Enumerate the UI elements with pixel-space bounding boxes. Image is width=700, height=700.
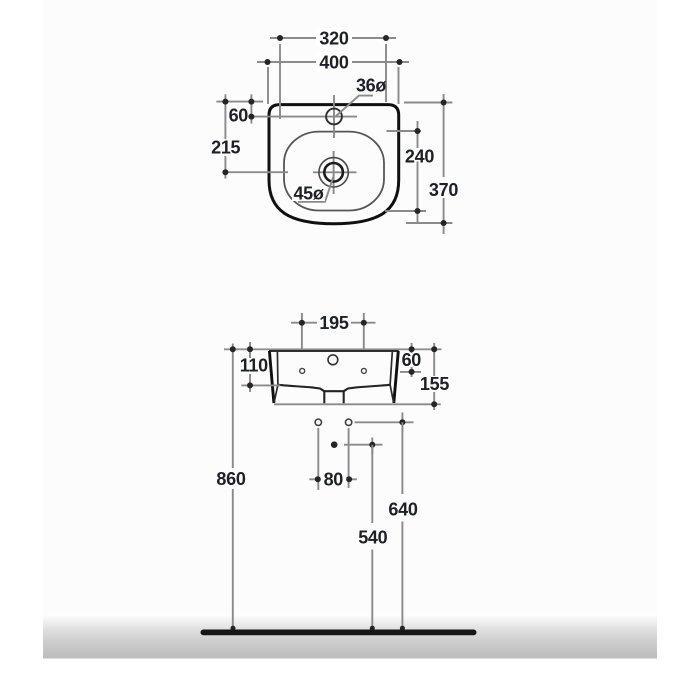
mounting hole left <box>315 419 321 425</box>
dim 215 dot bottom <box>222 169 228 175</box>
drain boss <box>324 391 343 403</box>
waste outlet dot <box>331 441 338 448</box>
interior bottom left <box>278 385 324 391</box>
basin inner bowl <box>284 132 384 211</box>
drain leader from 215 <box>225 171 288 173</box>
svg-text:860: 860 <box>216 469 245 489</box>
45ø label <box>292 186 325 201</box>
dim 370 bottom leader <box>406 222 452 224</box>
dim 320 dot right <box>383 35 389 41</box>
right wall outer <box>394 351 399 403</box>
dim 155 dot top <box>431 346 437 352</box>
floor dot 860 <box>231 626 236 631</box>
dim 60 vertical <box>250 94 252 123</box>
dim 320 line <box>270 37 396 39</box>
45ø leader <box>298 175 334 202</box>
drain inner circle <box>324 163 343 182</box>
floor line <box>201 630 477 636</box>
dim 110 vertical <box>249 342 251 358</box>
dim 215 dot top <box>222 99 228 105</box>
svg-text:110: 110 <box>240 356 268 376</box>
floor dot 640 <box>400 626 405 631</box>
dim 400 dot left <box>265 59 271 65</box>
faucet hole crosshair vertical <box>333 95 335 138</box>
mounting hole right <box>345 419 351 425</box>
400 extension left <box>267 67 269 104</box>
interior bottom right <box>344 385 390 391</box>
dim 60 top-view shared extension line <box>216 101 263 103</box>
dim 195 dot right <box>361 320 367 326</box>
dim 195 line <box>291 322 317 324</box>
dim 195 vertical left <box>301 313 303 349</box>
faucet hole <box>326 109 342 125</box>
dim 240 vertical <box>417 121 419 148</box>
svg-text:36ø: 36ø <box>356 76 386 96</box>
left wall outer <box>269 351 274 403</box>
dim 640 vertical <box>401 422 403 494</box>
dim 400 line <box>257 61 409 63</box>
320 extension left <box>279 44 281 119</box>
hole extension left vertical <box>317 428 319 490</box>
dim 60 front dot top <box>409 346 415 352</box>
drain outer circle <box>319 158 348 187</box>
dim 80 line <box>309 478 318 480</box>
dim 240 dot bottom <box>415 208 421 214</box>
dim 60 dot bottom <box>248 114 254 120</box>
faucet hole front <box>328 355 338 365</box>
svg-text:400: 400 <box>319 53 348 73</box>
dim 860 dot top <box>230 346 236 352</box>
dim 215 vertical <box>224 94 226 139</box>
svg-text:640: 640 <box>388 500 417 520</box>
svg-text:60: 60 <box>402 350 422 370</box>
svg-text:540: 540 <box>358 528 387 548</box>
floor gradient band <box>43 614 657 659</box>
dim 400 dot right <box>397 59 403 65</box>
dim 240 top leader <box>387 130 422 132</box>
svg-text:370: 370 <box>429 180 458 200</box>
right wall inner <box>390 352 394 402</box>
640 top crosshair stub <box>401 413 403 433</box>
svg-text:60: 60 <box>229 106 249 126</box>
dim 60 front vertical <box>411 343 413 377</box>
dim 540 vertical <box>371 445 373 523</box>
svg-text:240: 240 <box>405 147 434 167</box>
faucet hole crosshair horizontal / 60 leader <box>251 116 357 118</box>
dim 860 vertical <box>232 344 234 469</box>
svg-text:320: 320 <box>319 29 348 49</box>
left wall inner <box>274 352 278 402</box>
dim 80 dot right <box>346 476 352 482</box>
dim 60 front bottom arm <box>400 371 421 373</box>
basin outer outline <box>269 105 399 224</box>
waste leader <box>344 444 383 446</box>
dim 110 label <box>240 359 268 372</box>
dim 80 dot left <box>315 476 321 482</box>
540 top crosshair stub <box>371 438 373 455</box>
dim 60 front dot bottom <box>409 369 415 375</box>
floor dot 540 <box>370 626 375 631</box>
dim 195 vertical right <box>363 313 365 349</box>
hole extension right vertical <box>348 428 350 488</box>
dim 110 dot top <box>247 346 253 352</box>
svg-text:155: 155 <box>420 374 449 394</box>
400 extension right <box>398 67 400 104</box>
svg-text:80: 80 <box>324 470 344 490</box>
bottom line <box>274 403 441 405</box>
svg-text:195: 195 <box>319 313 348 333</box>
dim 370 top leader <box>404 102 452 104</box>
svg-text:215: 215 <box>211 138 240 158</box>
long extension line through rim <box>224 348 442 350</box>
dim 60 dot top <box>248 99 254 105</box>
dim 110 dot bottom <box>247 382 253 388</box>
dim 110 bottom leader <box>241 384 280 386</box>
dim 240 dot top <box>415 128 421 134</box>
drain crosshair horizontal <box>313 171 357 173</box>
dim 370 vertical <box>443 94 445 177</box>
540 top dot <box>369 442 375 448</box>
leader right of mounting hole <box>355 421 414 423</box>
dim 370 dot bottom <box>441 220 447 226</box>
640 top dot <box>399 419 405 425</box>
dim 320 dot left <box>277 35 283 41</box>
fixing hole left <box>300 368 305 373</box>
rim top line <box>269 350 399 352</box>
36ø leader <box>336 96 373 116</box>
fixing hole right <box>361 368 366 373</box>
dim 155 dot bottom <box>431 401 437 407</box>
svg-text:45ø: 45ø <box>293 184 323 204</box>
dim 195 dot left <box>299 320 305 326</box>
drain crosshair vertical <box>333 151 335 194</box>
dim 155 vertical <box>433 343 435 376</box>
320 extension right <box>385 44 387 102</box>
dim 370 dot top <box>441 100 447 106</box>
dim 240 bottom leader <box>385 210 426 212</box>
dim 60 front label <box>402 353 421 367</box>
